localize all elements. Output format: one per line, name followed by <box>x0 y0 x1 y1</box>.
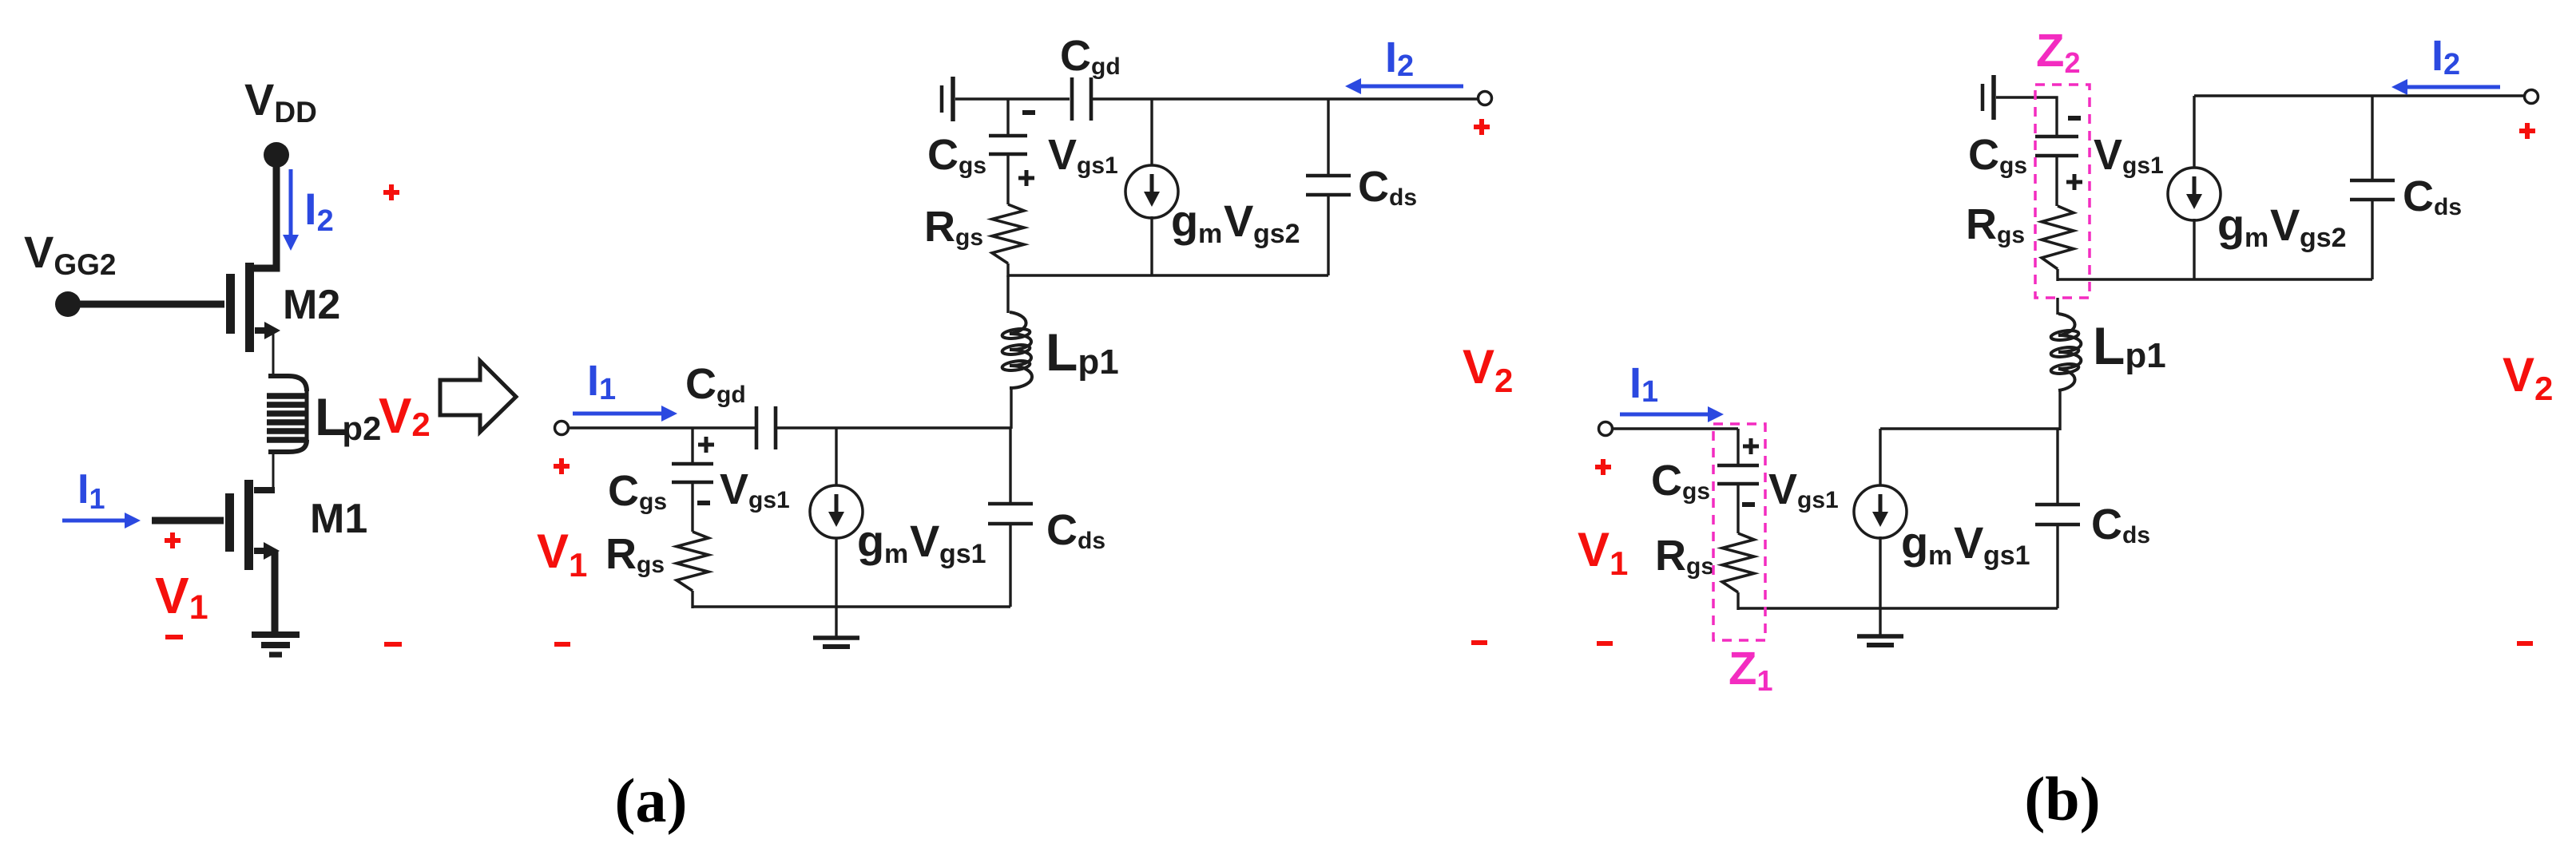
wire M2 source to Lp2 <box>272 331 275 377</box>
transistor M1 channel bar <box>244 480 253 570</box>
svg-text:M1: M1 <box>310 496 367 542</box>
polarity - (left V1) <box>165 635 183 639</box>
wire Cgs to Rgs (b bottom) <box>1737 484 1739 533</box>
ground (left) <box>252 631 300 638</box>
svg-text:g: g <box>1901 517 1928 568</box>
svg-text:gs1: gs1 <box>939 539 986 569</box>
current arrow I2 (b) <box>2406 85 2500 89</box>
inductor Lp2 right spine <box>305 390 309 441</box>
resistor Rgs (b top) <box>2042 206 2074 269</box>
polarity - (b V2) <box>2517 641 2533 646</box>
inductor Lp1 (a) <box>1010 312 1032 388</box>
svg-text:V: V <box>1954 517 1983 568</box>
polarity - (a V2) <box>1471 640 1487 645</box>
wire Lp2 to M1 drain <box>272 452 275 492</box>
svg-text:M2: M2 <box>283 282 340 328</box>
resistor Rgs (a top) <box>992 204 1024 263</box>
wire (a bottom rail) <box>693 605 1010 608</box>
wire Rgs to bottom (b) <box>1737 592 1739 610</box>
svg-text:m: m <box>2245 223 2268 253</box>
transistor M2 gate bar <box>226 274 235 334</box>
resistor Rgs (b bottom) <box>1722 533 1754 592</box>
current arrow I2 (left) <box>289 169 293 236</box>
polarity + (left bottom) <box>165 538 181 543</box>
svg-text:g: g <box>2217 200 2245 250</box>
polarity - (left right) <box>384 642 402 647</box>
polarity + (a bottom Cgs) <box>698 443 714 447</box>
svg-text:(a): (a) <box>615 766 688 835</box>
capacitor Cgd (a top) <box>1070 77 1074 121</box>
svg-text:gs1: gs1 <box>1983 540 2030 571</box>
wire input (a bottom) <box>568 426 756 429</box>
inductor Lp1 (b) <box>2058 314 2081 390</box>
svg-text:m: m <box>884 539 908 569</box>
polarity + (left top) <box>383 190 399 195</box>
svg-text:(b): (b) <box>2024 764 2100 833</box>
svg-text:m: m <box>1198 219 1222 249</box>
svg-text:V: V <box>1224 196 1253 246</box>
wire Cgs to Rgs (a bottom) <box>691 482 693 532</box>
wire Cgs to Rgs (b top) <box>2055 156 2058 206</box>
wire VGG2 to M2 gate <box>77 301 224 308</box>
polarity + (b V2) <box>2519 129 2535 133</box>
polarity - (a V1) <box>554 642 570 647</box>
svg-text:gs2: gs2 <box>2300 223 2347 253</box>
ground (a) <box>835 607 837 638</box>
current source gmVgs1 (a) <box>835 428 837 486</box>
wire Rgs to bottom (b top) <box>2056 269 2058 281</box>
polarity - (b V1) <box>1597 641 1613 646</box>
ground (b) <box>1879 608 1881 636</box>
polarity + (a V2) <box>1474 125 1490 129</box>
capacitor Cds (a bottom) <box>1009 428 1011 504</box>
capacitor Cds (b bottom) <box>2056 429 2058 505</box>
wire Lp1 to node (a) <box>1010 388 1012 429</box>
current arrow I1 (b) <box>1620 413 1709 417</box>
node VDD dot <box>264 142 289 168</box>
wire (b bottom rail) <box>1738 607 2058 609</box>
polarity + (b bottom Cgs) <box>1743 445 1759 449</box>
polarity - (a top Cgs) <box>1022 110 1035 115</box>
capacitor Cgs (a bottom) <box>672 462 713 466</box>
wire VDD to M2 drain <box>254 158 276 268</box>
wire Rgs to bottom (a top) <box>1006 263 1009 277</box>
block arrow <box>440 361 516 432</box>
terminal (a top right) <box>1479 92 1492 105</box>
impedance box Z1 <box>1713 424 1765 640</box>
transistor M2 source arrow <box>255 327 267 334</box>
svg-text:V: V <box>910 516 939 566</box>
wire (a top bottom rail) <box>1008 274 1328 276</box>
wire input (b bottom) <box>1612 427 1738 430</box>
M1 drain lead <box>254 487 275 493</box>
ground (b top, sideways) <box>1981 84 1985 111</box>
terminal (b bottom left) <box>1599 422 1613 436</box>
current arrow I2 (a) <box>1359 85 1463 89</box>
capacitor Cgs (b top) <box>2035 135 2078 139</box>
inductor Lp2 winding bars <box>267 393 305 399</box>
resistor Rgs (a bottom) <box>677 532 708 591</box>
current source gmVgs1 (b) <box>1879 429 1881 487</box>
capacitor Cgs (a top) <box>989 134 1027 138</box>
transistor M2 channel bar <box>245 263 254 352</box>
wire Cgs tee (a bottom) <box>691 428 693 464</box>
svg-text:V: V <box>2270 200 2300 250</box>
M1 gate wire <box>152 517 224 525</box>
capacitor Cds (a top) <box>1327 99 1329 176</box>
wire Rgs to bottom (a) <box>691 591 693 608</box>
node VGG2 dot <box>55 291 81 317</box>
wire M1 source to ground <box>272 551 279 635</box>
impedance box Z2 <box>2035 85 2090 298</box>
svg-text:g: g <box>857 516 884 566</box>
wire to Lp1 (a) <box>1006 275 1009 313</box>
polarity + (a V1) <box>554 464 570 469</box>
wire Z2 to Lp1 (b) <box>2056 298 2058 315</box>
inductor Lp2 bottom hook <box>268 440 307 452</box>
current source gmVgs2 (a) <box>1150 99 1153 167</box>
wire Cgs tee (b bottom) <box>1737 429 1739 465</box>
transistor M1 gate bar <box>225 493 234 552</box>
current arrow I1 (a) <box>573 412 663 416</box>
svg-text:g: g <box>1171 196 1198 246</box>
wire (a top right) <box>1093 97 1479 100</box>
wire (a bottom top rail) <box>775 426 1011 429</box>
capacitor Cgd (a bottom) <box>755 406 759 449</box>
polarity + (b V1) <box>1595 465 1611 469</box>
wire Cgs tee (a top) <box>1006 99 1009 136</box>
polarity + (b top Cgs) <box>2066 180 2082 184</box>
wire (b top left) <box>1996 97 2057 137</box>
terminal (b top right) <box>2525 90 2538 104</box>
polarity - (a bottom Cgs) <box>697 501 710 505</box>
wire (a top left) <box>955 97 1070 100</box>
polarity - (b top Cgs) <box>2068 116 2081 121</box>
current source gmVgs2 (b) <box>2193 96 2195 168</box>
capacitor Cds (b top) <box>2371 96 2373 180</box>
wire (b top rail) <box>2194 94 2525 97</box>
wire (b bottom top rail) <box>1880 427 2060 430</box>
wire (b top bottom rail) <box>2057 278 2372 280</box>
polarity + (a top Cgs) <box>1018 176 1034 180</box>
svg-text:m: m <box>1928 540 1952 571</box>
svg-text:gs2: gs2 <box>1253 219 1300 249</box>
inductor Lp2 top hook <box>268 376 307 391</box>
ground (a top, sideways) <box>940 85 944 113</box>
current arrow I1 (left) <box>62 519 126 523</box>
polarity - (b bottom Cgs) <box>1742 502 1755 507</box>
transistor M1 source arrow <box>254 548 266 554</box>
terminal (a bottom left) <box>555 422 569 435</box>
capacitor Cgs (b bottom) <box>1717 464 1759 468</box>
wire Lp1 to node (b) <box>2058 390 2061 430</box>
wire Cgs to Rgs (a top) <box>1006 154 1009 204</box>
